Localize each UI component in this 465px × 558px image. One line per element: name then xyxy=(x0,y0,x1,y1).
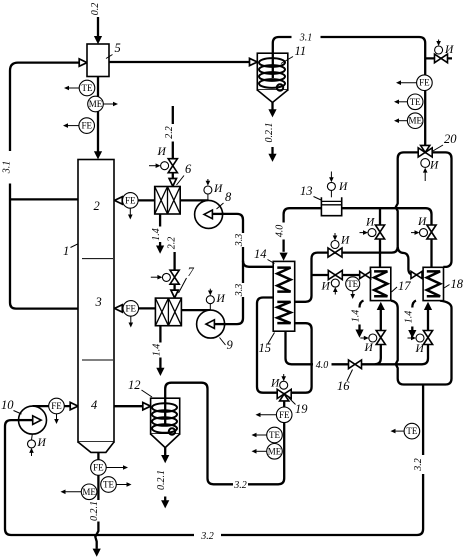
svg-text:4.0: 4.0 xyxy=(275,225,286,238)
svg-text:FE: FE xyxy=(125,195,136,205)
svg-text:И: И xyxy=(415,343,425,355)
svg-text:И: И xyxy=(444,44,454,56)
svg-text:FE: FE xyxy=(51,401,62,411)
svg-text:2.2: 2.2 xyxy=(164,126,175,139)
svg-text:ME: ME xyxy=(82,487,96,497)
svg-text:2: 2 xyxy=(94,199,100,213)
svg-text:И: И xyxy=(213,183,223,195)
svg-text:3: 3 xyxy=(95,295,102,309)
svg-text:19: 19 xyxy=(295,402,308,416)
svg-text:И: И xyxy=(340,235,350,247)
svg-text:1.4: 1.4 xyxy=(403,311,414,324)
svg-text:5: 5 xyxy=(115,41,121,55)
svg-text:1: 1 xyxy=(63,244,69,258)
svg-text:4: 4 xyxy=(91,398,97,412)
svg-text:4.0: 4.0 xyxy=(316,360,329,371)
svg-text:1.4: 1.4 xyxy=(151,344,162,357)
svg-text:TE: TE xyxy=(347,279,358,289)
svg-text:0.2.1: 0.2.1 xyxy=(89,501,100,521)
svg-text:И: И xyxy=(417,216,427,228)
svg-text:2.2: 2.2 xyxy=(167,237,178,250)
svg-text:FE: FE xyxy=(93,463,104,473)
svg-text:TE: TE xyxy=(82,83,93,93)
svg-text:13: 13 xyxy=(300,184,313,198)
svg-text:12: 12 xyxy=(128,378,141,392)
svg-text:7: 7 xyxy=(188,265,195,279)
svg-text:И: И xyxy=(364,342,374,354)
svg-text:0.2.1: 0.2.1 xyxy=(156,470,167,490)
svg-text:18: 18 xyxy=(451,277,464,291)
svg-text:17: 17 xyxy=(398,279,411,293)
svg-text:0.2: 0.2 xyxy=(90,3,101,16)
svg-text:1.4: 1.4 xyxy=(151,228,162,241)
svg-text:6: 6 xyxy=(185,162,192,176)
svg-text:ME: ME xyxy=(268,446,282,456)
svg-text:И: И xyxy=(157,146,167,158)
svg-text:9: 9 xyxy=(227,338,234,352)
svg-text:TE: TE xyxy=(103,480,114,490)
svg-text:И: И xyxy=(365,217,375,229)
svg-text:3.2: 3.2 xyxy=(233,480,247,491)
svg-text:0.2.1: 0.2.1 xyxy=(264,123,275,143)
svg-text:20: 20 xyxy=(444,132,457,146)
svg-text:3.1: 3.1 xyxy=(2,161,13,175)
svg-text:FE: FE xyxy=(279,410,290,420)
svg-text:TE: TE xyxy=(406,426,417,436)
svg-text:16: 16 xyxy=(337,379,350,393)
svg-text:1.4: 1.4 xyxy=(351,310,362,323)
svg-text:3.2: 3.2 xyxy=(413,458,424,472)
svg-text:3.1: 3.1 xyxy=(299,33,313,44)
svg-text:И: И xyxy=(321,281,331,293)
svg-text:3.2: 3.2 xyxy=(200,531,214,542)
svg-text:10: 10 xyxy=(1,398,14,412)
svg-text:15: 15 xyxy=(259,341,272,355)
svg-text:И: И xyxy=(429,160,439,172)
svg-text:3.3: 3.3 xyxy=(234,234,245,248)
svg-text:14: 14 xyxy=(254,247,267,261)
svg-text:И: И xyxy=(270,378,280,390)
svg-text:FE: FE xyxy=(419,78,430,88)
svg-text:FE: FE xyxy=(81,121,92,131)
svg-text:11: 11 xyxy=(295,44,307,58)
svg-text:ME: ME xyxy=(408,116,422,126)
svg-text:ME: ME xyxy=(89,99,103,109)
svg-text:TE: TE xyxy=(269,430,280,440)
svg-text:И: И xyxy=(216,293,226,305)
svg-text:FE: FE xyxy=(126,303,137,313)
svg-text:TE: TE xyxy=(410,97,421,107)
svg-text:И: И xyxy=(338,181,348,193)
svg-text:3.3: 3.3 xyxy=(234,284,245,298)
svg-text:8: 8 xyxy=(225,190,232,204)
svg-text:И: И xyxy=(37,437,47,449)
